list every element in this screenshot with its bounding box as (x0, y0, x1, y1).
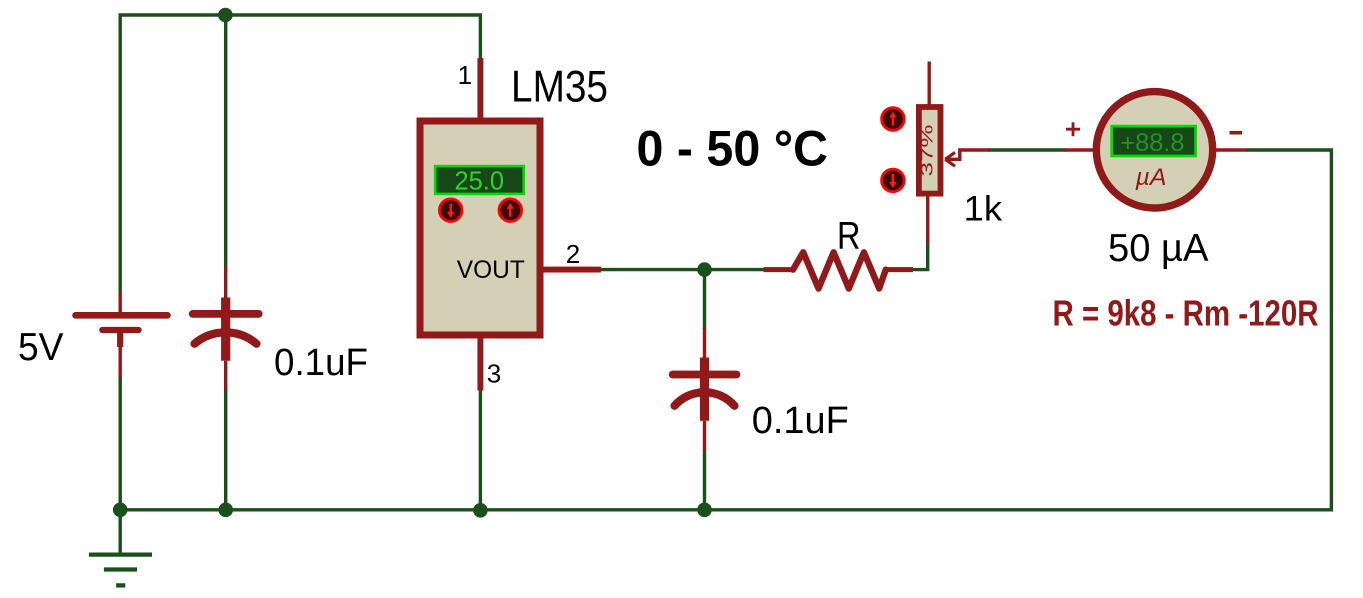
svg-text:LM35: LM35 (511, 63, 608, 112)
svg-text:37%: 37% (919, 124, 937, 177)
svg-text:VOUT: VOUT (457, 256, 525, 284)
svg-text:0.1uF: 0.1uF (274, 342, 368, 384)
svg-text:3: 3 (487, 358, 501, 388)
svg-text:25.0: 25.0 (455, 166, 505, 196)
svg-text:µA: µA (1134, 164, 1166, 191)
svg-text:5V: 5V (18, 326, 64, 369)
svg-text:R: R (837, 214, 861, 257)
svg-text:50 µA: 50 µA (1108, 227, 1209, 270)
svg-text:R = 9k8 - Rm -120R: R = 9k8 - Rm -120R (1053, 293, 1319, 334)
svg-text:+88.8: +88.8 (1120, 129, 1184, 157)
svg-text:0.1uF: 0.1uF (752, 400, 849, 442)
svg-text:1: 1 (458, 60, 472, 90)
svg-text:2: 2 (566, 239, 580, 269)
svg-text:1k: 1k (964, 190, 1003, 229)
svg-text:0 - 50 °C: 0 - 50 °C (637, 121, 829, 177)
